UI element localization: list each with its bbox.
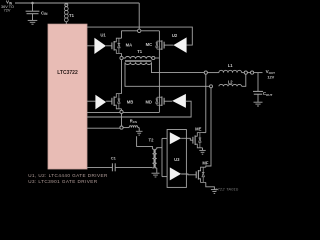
wire U1 input [87, 45, 94, 47]
ground CIN [28, 20, 38, 24]
wire node to node [247, 72, 250, 74]
label RCS [130, 118, 137, 124]
svg-text:L1: L1 [228, 63, 234, 68]
label COUT [263, 91, 273, 97]
transformer T1 primary [125, 57, 152, 59]
caption figure [215, 188, 238, 192]
node L1 left [204, 71, 207, 74]
transistor MD [156, 96, 165, 106]
label MC [146, 42, 153, 47]
op-amp U2 driver [173, 37, 186, 53]
IC U3 box [167, 130, 186, 188]
ground ME [199, 150, 205, 154]
wire secondary left drop [125, 63, 209, 87]
wire T2 secondary top [157, 148, 162, 149]
node sense bottom [120, 126, 123, 129]
wire MB source [121, 109, 123, 111]
label T1 bias [69, 13, 75, 18]
wire COUT drop [257, 73, 259, 92]
ground T2 [152, 173, 160, 177]
svg-text:T2: T2 [149, 138, 155, 143]
label VOUT [266, 69, 276, 80]
wire sense rail [87, 111, 159, 113]
svg-text:C1: C1 [111, 156, 117, 161]
node T1 bias junction [65, 4, 68, 7]
svg-text:LTC3722: LTC3722 [57, 70, 78, 76]
transformer T2 primary [152, 149, 154, 168]
label MF [202, 161, 208, 166]
svg-text:ME: ME [195, 127, 201, 132]
wire to L1 [207, 72, 219, 74]
wire VIN rail [15, 2, 139, 4]
svg-text:12V: 12V [267, 75, 274, 80]
transistor MF [196, 167, 206, 182]
wire chip to LR driver [87, 101, 191, 117]
capacitor C1 [112, 163, 115, 171]
op-amp U3 top driver [170, 132, 181, 144]
label MB [127, 100, 134, 105]
wire MC drain [158, 31, 160, 41]
wire ME drain jog [203, 132, 206, 134]
svg-text:L2: L2 [228, 80, 234, 85]
node A circle [120, 56, 123, 59]
op-amp U1 driver [94, 38, 106, 54]
wire U3 input bottom [162, 176, 167, 178]
transistor MA [112, 38, 122, 53]
wire U2 to MC gate [164, 44, 173, 46]
wire primary to node B [151, 57, 153, 59]
node rail B [210, 85, 213, 88]
label T1 [137, 49, 143, 54]
inductor L1 [219, 70, 242, 72]
label L2 [228, 80, 234, 85]
wire MD source [158, 105, 160, 112]
svg-text:MB: MB [127, 100, 134, 105]
resistor RCS [123, 126, 139, 128]
wire secondary right drop [152, 63, 205, 73]
transformer T1 secondary [125, 62, 152, 64]
label L1 [228, 63, 234, 68]
svg-text:72V: 72V [4, 9, 11, 13]
wire node A to MB drain [121, 60, 123, 94]
label CIN [41, 10, 48, 16]
wire MC source [158, 49, 160, 58]
wire ME source [202, 148, 204, 150]
wire MA source [121, 53, 123, 58]
wire LL to MB gate [106, 100, 112, 102]
wire bridge top rail [121, 30, 159, 32]
svg-text:U2: U2 [172, 33, 178, 38]
label U1 [100, 32, 106, 37]
transformer T2 core [154, 149, 155, 168]
label U2 [172, 33, 178, 38]
op-amp lower-left driver [95, 95, 106, 110]
IC U4 LTC3722 block [48, 24, 87, 169]
transistor ME [193, 133, 203, 148]
label LTC3722 [57, 70, 78, 76]
wire chip to U2 feed [87, 27, 192, 45]
wire rail A vertical [205, 74, 207, 132]
capacitor CIN [26, 3, 40, 20]
ground RCS [136, 131, 143, 135]
wire MA drain [121, 31, 123, 38]
node sense top [120, 110, 123, 113]
wire T2 secondary bottom [156, 168, 158, 173]
wire L1 right [242, 72, 245, 74]
wire node B to MD leg [155, 57, 160, 59]
label C1 [111, 156, 117, 161]
wire U3 to ME gate [181, 138, 193, 140]
ground MF [211, 190, 218, 194]
svg-text:U1: U1 [100, 32, 106, 37]
svg-text:T1: T1 [137, 49, 143, 54]
transformer T2 secondary [154, 149, 156, 168]
label MD [145, 99, 152, 104]
node B circle [152, 56, 155, 59]
svg-text:MA: MA [126, 42, 133, 47]
wire MF source [206, 182, 215, 189]
wire U3 input top [162, 137, 167, 139]
svg-text:U3: U3 [174, 157, 180, 162]
svg-text:MD: MD [145, 99, 152, 104]
inductor L2 [219, 84, 242, 86]
wire C1 to T2 [115, 166, 152, 168]
op-amp lower-right driver [172, 94, 186, 108]
svg-text:MC: MC [146, 42, 153, 47]
note drivers [28, 173, 108, 184]
wire U3 input vertical [161, 138, 163, 176]
wire sense vertical [121, 114, 123, 127]
wire node A to primary [123, 57, 125, 59]
wire node B to MD drain [158, 58, 160, 97]
capacitor COUT [253, 91, 263, 102]
wire chip drive out [87, 166, 112, 168]
wire L2 right up [242, 74, 246, 86]
wire T2 primary top to ground [137, 136, 153, 149]
svg-text:3722 TA01b: 3722 TA01b [215, 188, 238, 192]
svg-text:U3: LTC3901 GATE DRIVER: U3: LTC3901 GATE DRIVER [28, 179, 98, 184]
label U3 [174, 157, 180, 162]
svg-text:MF: MF [202, 161, 208, 166]
node VIN bridge [138, 29, 141, 32]
wire chip CS line [87, 127, 120, 129]
wire U3 to MF gate [181, 173, 196, 176]
wire rail B vertical [206, 88, 211, 167]
label MA [126, 42, 133, 47]
transformer T1 core [125, 60, 152, 61]
junction CIN [31, 2, 34, 5]
wire RCS to ground [138, 128, 140, 131]
wire to VOUT [254, 72, 263, 74]
transistor MC [156, 40, 165, 50]
label ME [195, 127, 201, 132]
transistor MB [112, 94, 122, 109]
svg-text:U1, U2: LTC4440 GATE DRIVER: U1, U2: LTC4440 GATE DRIVER [28, 173, 108, 178]
node VIN label [1, 0, 14, 13]
node VOUT junction [251, 71, 254, 74]
wire LL driver input [87, 100, 95, 102]
svg-text:T1: T1 [69, 13, 75, 18]
ground COUT [254, 102, 263, 106]
op-amp U3 bottom driver [170, 167, 181, 180]
wire LR to MD gate [164, 100, 172, 102]
inductor T1 bias winding [64, 3, 68, 24]
wire VIN drop [138, 3, 140, 29]
label T2 [149, 138, 155, 143]
node L1 out [244, 71, 247, 74]
wire U1 to MA gate [106, 45, 112, 47]
